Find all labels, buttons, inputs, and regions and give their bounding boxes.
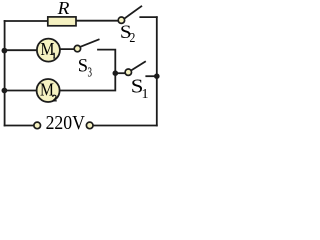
svg-text:1: 1 (142, 87, 149, 102)
motor M2 (37, 79, 60, 102)
svg-text:3: 3 (88, 65, 93, 80)
svg-text:M: M (41, 39, 55, 59)
terminal right of 220V (86, 122, 93, 129)
switch S2 blade (124, 6, 142, 19)
node junction dot S3 vertical / S1 branch (113, 70, 119, 76)
svg-text:2: 2 (129, 30, 135, 45)
wire top-left horizontal to resistor (5, 20, 48, 22)
switch S1 pivot (125, 69, 131, 75)
wire S3 contact stub down to node and left to M2 (60, 50, 116, 91)
motor M1 (37, 39, 60, 62)
wire bottom-right from terminal to right rail (93, 125, 157, 127)
svg-text:M: M (40, 80, 54, 100)
switch S3 pivot (74, 45, 80, 51)
node junction dot left rail / M1 row (2, 48, 8, 54)
terminal left of 220V (34, 122, 41, 129)
wire left rail vertical (4, 21, 6, 126)
wire S2 fixed contact stub (140, 16, 157, 18)
wire M1 to S3 (60, 48, 74, 50)
svg-text:R: R (57, 0, 70, 18)
switch S2 pivot (118, 17, 124, 23)
wire bottom-left to terminal (5, 125, 34, 127)
wire node to S1 pivot (115, 72, 125, 74)
node junction dot right rail / S1 stub (154, 73, 160, 79)
svg-text:220V: 220V (46, 112, 86, 134)
wire M1 row left (5, 49, 37, 51)
wire M2 row left (5, 90, 37, 92)
resistor R (48, 17, 76, 26)
switch S1 blade (131, 61, 146, 70)
switch S3 blade (80, 39, 99, 47)
wire right rail vertical (156, 17, 158, 125)
node junction dot left rail / M2 row (2, 88, 8, 94)
wire S1 fixed contact stub (146, 75, 157, 77)
wire resistor to S2 (76, 20, 118, 22)
